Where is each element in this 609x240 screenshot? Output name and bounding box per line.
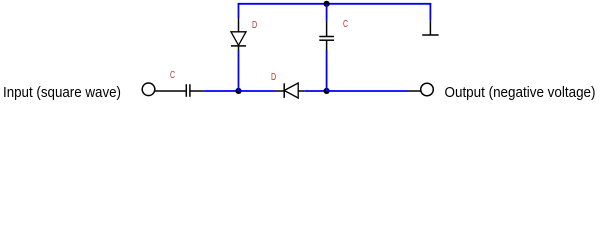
capacitor C2 (vertical): [319, 21, 334, 50]
input terminal: [142, 83, 155, 96]
wire top rail down to ground: [429, 3, 431, 21]
wire D2 to node B: [305, 90, 327, 92]
output terminal: [421, 83, 434, 96]
wire input to C1: [155, 90, 187, 92]
node A junction: [235, 88, 241, 94]
ground: [422, 21, 438, 35]
svg-text:D: D: [252, 20, 257, 31]
diode D2 (horizontal): [275, 83, 305, 98]
diode D1 (vertical): [231, 18, 246, 50]
wire black lead to output terminal: [408, 90, 421, 92]
wire node A up to D1: [238, 50, 240, 91]
svg-text:D: D: [271, 72, 276, 83]
wire C2 down to node B: [326, 50, 328, 91]
value label D (diode D1): [252, 20, 257, 31]
value label C (capacitor C2): [343, 19, 348, 30]
svg-text:Input (square wave): Input (square wave): [3, 84, 121, 101]
wire node B to output: [327, 90, 408, 92]
wire top rail down to C2: [326, 4, 328, 21]
svg-text:C: C: [343, 19, 348, 30]
node B junction: [324, 88, 330, 94]
wire C1 to node A: [204, 90, 239, 92]
svg-text:C: C: [170, 70, 175, 81]
capacitor C1: [186, 84, 204, 97]
wire D1 up to top rail: [238, 3, 240, 18]
wire top rail: [238, 3, 432, 5]
node C junction (top): [324, 1, 330, 7]
wire node A to D2: [239, 90, 275, 92]
value label C (capacitor C1): [170, 70, 175, 81]
label Input: [3, 84, 121, 101]
label Output: [445, 84, 596, 101]
value label D (diode D2): [271, 72, 276, 83]
svg-text:Output (negative voltage): Output (negative voltage): [445, 84, 596, 101]
